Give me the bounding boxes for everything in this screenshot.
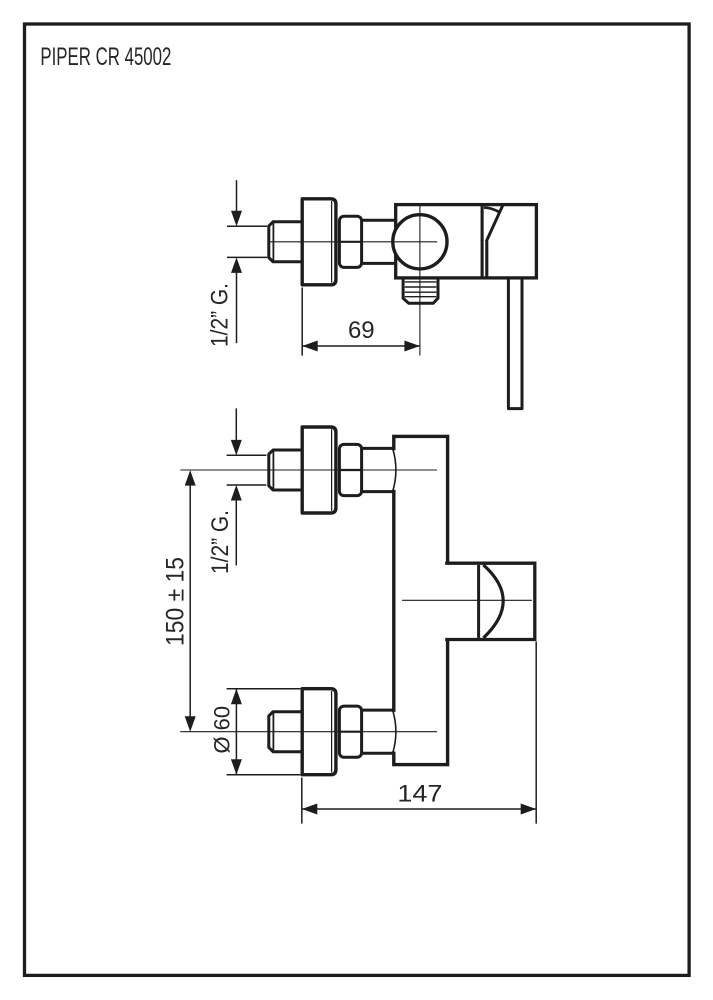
arrowhead up at thread bottom (side view) xyxy=(231,257,242,273)
side view: outlet thread lines xyxy=(405,282,437,297)
front view: upper supply pipe xyxy=(362,448,394,491)
front view: housing centerline xyxy=(402,599,532,601)
side view: handle lever diagonal edge xyxy=(486,205,503,241)
dimension 69 xyxy=(302,288,420,356)
svg-text:1/2” G.: 1/2” G. xyxy=(207,283,234,347)
front view: upper connector centerline xyxy=(180,469,437,471)
arrowhead up at thread bottom (front view) xyxy=(231,485,242,501)
arrowhead up at dia60 top xyxy=(231,689,242,705)
svg-text:150 ± 15: 150 ± 15 xyxy=(161,557,189,646)
side view: valve boss circle xyxy=(393,215,447,269)
front view: lower pipe end arc xyxy=(393,711,396,753)
side view: vertical centerline of outlet xyxy=(419,205,421,356)
svg-text:Ø 60: Ø 60 xyxy=(210,706,235,754)
arrowhead down at 150 bottom xyxy=(185,716,196,732)
front view: upper inlet connector xyxy=(269,427,362,513)
front view: cartridge housing protrusion xyxy=(445,563,535,639)
svg-text:69: 69 xyxy=(348,317,375,344)
arrowhead down at dia60 bottom xyxy=(231,759,242,775)
front view: lower inlet connector xyxy=(269,689,362,775)
dimension 150 +/- 15 xyxy=(189,485,191,717)
side view: horizontal centerline xyxy=(269,241,437,243)
arrowhead up at 150 top xyxy=(185,470,196,486)
front view: lower connector centerline xyxy=(180,731,437,733)
svg-text:1/2” G.: 1/2” G. xyxy=(207,510,234,574)
side view: body/handle separation double line xyxy=(482,205,487,278)
front view: lower pipe opening (erases body edge) xyxy=(390,712,396,752)
arrowhead right of 69 xyxy=(404,341,420,352)
front view: upper pipe end arc xyxy=(393,449,396,491)
dimension 1/2" G. (front view) xyxy=(227,408,267,565)
dimension 147 xyxy=(302,642,536,824)
svg-text:PIPER CR 45002: PIPER CR 45002 xyxy=(40,43,171,71)
side view: handle lever top curve xyxy=(484,208,501,213)
arrowhead down at thread top (front view) xyxy=(231,440,242,456)
front view: housing inner vertical line xyxy=(477,565,480,638)
arrowhead left of 69 xyxy=(302,341,318,352)
side view: threaded hose outlet xyxy=(403,279,438,303)
front view: lower supply pipe xyxy=(362,710,394,753)
arrowhead left of 147 xyxy=(302,804,318,815)
side view: handle stem xyxy=(508,277,522,409)
side view: inlet connector (tail, flange, nut) xyxy=(269,199,362,285)
front view: body outline xyxy=(394,436,448,764)
dimension 1/2" G. (side view) xyxy=(227,180,267,343)
arrowhead down at thread top (side view) xyxy=(231,211,242,227)
svg-text:147: 147 xyxy=(397,781,442,808)
front view: housing dome arc xyxy=(483,565,503,638)
front view: upper pipe opening (erases body edge) xyxy=(390,450,396,490)
side view: body outline xyxy=(396,205,537,278)
side view: supply pipe between nut and body xyxy=(362,220,397,263)
arrowhead right of 147 xyxy=(521,804,537,815)
dimension diameter 60 xyxy=(227,689,301,775)
